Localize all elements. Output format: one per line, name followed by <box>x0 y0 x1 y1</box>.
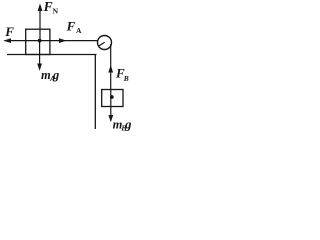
background <box>0 0 138 134</box>
svg-text:F: F <box>43 0 53 14</box>
block B <box>102 90 123 107</box>
table leg <box>94 55 96 130</box>
label F_N <box>43 0 59 16</box>
block A <box>26 29 50 54</box>
svg-text:F: F <box>4 24 14 39</box>
label F_B <box>115 66 129 83</box>
label m_A g <box>41 68 59 83</box>
label F <box>4 24 14 39</box>
svg-text:F: F <box>66 19 76 34</box>
svg-text:B: B <box>123 74 129 83</box>
force F_A arrowhead (rightward on rope) <box>59 38 67 43</box>
svg-text:g: g <box>52 68 59 82</box>
rope segment through block B <box>110 90 112 107</box>
node dot block A center <box>38 39 42 43</box>
force F_N arrow line <box>38 4 43 41</box>
svg-text:g: g <box>124 116 132 131</box>
force F arrow (left) head <box>4 38 12 43</box>
force F_B arrowhead (upward on rope) <box>108 65 113 73</box>
force m_A g arrow (weight of A) <box>37 41 42 71</box>
force m_B g arrow (weight of B) <box>108 107 113 123</box>
svg-text:N: N <box>53 7 59 16</box>
node dot block B center <box>110 95 114 99</box>
svg-text:A: A <box>76 26 82 35</box>
table surface <box>7 54 97 56</box>
label F_A <box>66 19 82 36</box>
label m_B g <box>113 116 132 132</box>
rope horizontal line through block A to pulley <box>5 40 99 42</box>
rope vertical (pulley to block B) <box>110 44 112 90</box>
pulley <box>98 36 112 50</box>
